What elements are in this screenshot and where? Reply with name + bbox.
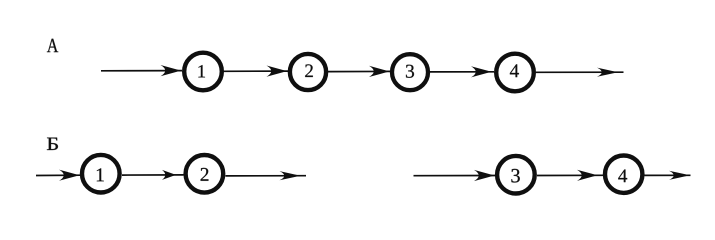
node A4 (496, 54, 534, 92)
wire out of node B2 (225, 175, 306, 177)
node B3 (497, 156, 535, 194)
wire out of node A4 (536, 71, 624, 73)
node B2 label 2 (201, 168, 209, 181)
node B1 (82, 155, 120, 193)
node B2 (186, 155, 224, 193)
wire B1 to B2 (122, 174, 184, 176)
node A2 (290, 54, 326, 90)
node B3 label 3 (511, 169, 519, 183)
arrow at end of row B group 2 (669, 171, 690, 180)
node A2 label 2 (305, 64, 313, 77)
arrow into node A1 (161, 65, 182, 76)
arrow into node B2 (162, 170, 176, 180)
arrow into node B4 (577, 170, 598, 181)
wire A2 to A3 (328, 70, 390, 72)
node B1 label 1 (97, 168, 104, 181)
arrow into node B1 (59, 170, 80, 181)
node A1 (184, 53, 222, 91)
wire into node A1 (101, 70, 182, 72)
label B (row B) (47, 138, 58, 150)
label A (row A) (47, 39, 58, 52)
arrow at end of row B group 1 (280, 171, 301, 180)
wire into node B1 (36, 174, 81, 176)
node B4 (605, 156, 642, 193)
node A3 (392, 54, 428, 90)
arrow into node B3 (474, 170, 495, 181)
wire A3 to A4 (430, 71, 494, 73)
node A1 label 1 (198, 65, 205, 77)
arrow into node A2 (267, 66, 288, 77)
node A3 label 3 (406, 65, 414, 78)
arrow into node A4 (471, 66, 492, 77)
wire A1 to A2 (223, 70, 288, 72)
wire into node B3 (414, 175, 496, 177)
wire B3 to B4 (537, 174, 603, 176)
node A4 label 4 (510, 64, 519, 77)
wire out of node B4 (645, 174, 691, 176)
arrow into node A3 (369, 66, 390, 77)
arrow at end of row A (597, 68, 618, 77)
node B4 label 4 (618, 170, 627, 183)
